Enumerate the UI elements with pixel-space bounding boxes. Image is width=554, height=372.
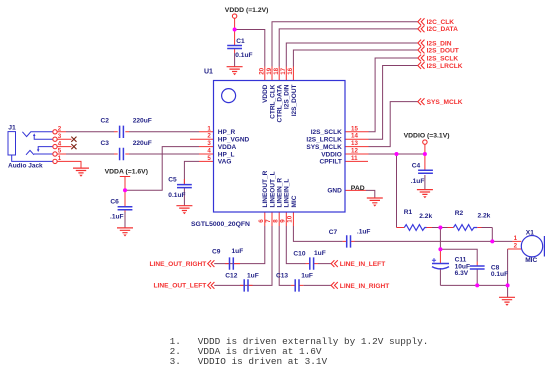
svg-text:LINE_IN_RIGHT: LINE_IN_RIGHT (340, 283, 389, 290)
svg-text:2: 2 (514, 243, 518, 250)
svg-text:15: 15 (351, 125, 358, 132)
svg-text:3: 3 (207, 140, 211, 147)
svg-text:VDDIO: VDDIO (321, 151, 342, 158)
svg-text:3: 3 (58, 133, 62, 140)
svg-text:GND: GND (327, 188, 342, 195)
svg-text:I2C_CLK: I2C_CLK (427, 19, 455, 26)
svg-text:CPFILT: CPFILT (320, 159, 342, 166)
svg-text:8: 8 (272, 219, 279, 223)
svg-text:C9: C9 (212, 248, 221, 255)
svg-text:C13: C13 (276, 273, 288, 280)
svg-text:I2S_SCLK: I2S_SCLK (311, 129, 342, 136)
svg-text:18: 18 (273, 67, 280, 74)
svg-text:MIC: MIC (291, 195, 298, 207)
svg-text:11: 11 (351, 155, 358, 162)
svg-text:X1: X1 (526, 229, 534, 236)
svg-text:5: 5 (207, 155, 211, 162)
svg-text:I2S_DIN: I2S_DIN (284, 84, 291, 109)
svg-text:1: 1 (58, 155, 62, 162)
svg-text:J1: J1 (8, 125, 16, 132)
svg-text:2: 2 (58, 126, 62, 133)
svg-text:U1: U1 (204, 69, 213, 76)
svg-text:SYS_MCLK: SYS_MCLK (427, 99, 463, 106)
svg-text:C5: C5 (168, 177, 177, 184)
svg-text:HP_L: HP_L (218, 151, 235, 158)
svg-text:I2S_DOUT: I2S_DOUT (291, 84, 298, 116)
svg-text:R2: R2 (455, 210, 464, 217)
svg-text:.1uF: .1uF (357, 228, 371, 235)
svg-text:C12: C12 (225, 273, 237, 280)
svg-text:LINEIN_R: LINEIN_R (277, 178, 284, 208)
svg-text:4: 4 (207, 148, 211, 155)
svg-text:VDDIO (=3.1V): VDDIO (=3.1V) (404, 133, 450, 140)
svg-text:VDDD (=1.2V): VDDD (=1.2V) (225, 7, 269, 14)
svg-text:2: 2 (207, 133, 211, 140)
svg-text:LINEIN_L: LINEIN_L (284, 179, 291, 208)
svg-text:1: 1 (514, 235, 518, 242)
svg-text:SYS_MCLK: SYS_MCLK (306, 144, 342, 151)
svg-text:1uF: 1uF (232, 248, 244, 255)
svg-text:1: 1 (207, 125, 211, 132)
svg-text:LINE_OUT_RIGHT: LINE_OUT_RIGHT (150, 261, 207, 268)
svg-text:I2S_LRCLK: I2S_LRCLK (306, 137, 342, 144)
svg-text:PAD: PAD (351, 185, 365, 192)
svg-text:C4: C4 (412, 163, 421, 170)
svg-text:HP_R: HP_R (218, 129, 236, 136)
svg-text:LINEOUT_R: LINEOUT_R (262, 170, 269, 207)
svg-text:CTRL_CLK: CTRL_CLK (269, 84, 276, 119)
svg-text:17: 17 (280, 67, 287, 74)
svg-text:HP_VGND: HP_VGND (218, 137, 250, 144)
svg-text:VAG: VAG (218, 159, 232, 166)
svg-text:10: 10 (287, 215, 294, 222)
svg-text:R1: R1 (404, 209, 413, 216)
svg-text:1uF: 1uF (247, 272, 259, 279)
svg-text:14: 14 (351, 133, 358, 140)
svg-text:VDDD: VDDD (262, 84, 269, 103)
svg-text:20: 20 (259, 67, 266, 74)
svg-text:13: 13 (351, 140, 358, 147)
svg-text:I2S_LRCLK: I2S_LRCLK (427, 63, 463, 70)
svg-text:C1: C1 (236, 38, 245, 45)
svg-text:SGTL5000_20QFN: SGTL5000_20QFN (191, 221, 250, 228)
svg-text:I2S_SCLK: I2S_SCLK (427, 55, 459, 62)
svg-text:C7: C7 (329, 229, 338, 236)
svg-text:Audio Jack: Audio Jack (8, 163, 43, 170)
svg-text:LINE_OUT_LEFT: LINE_OUT_LEFT (154, 283, 207, 290)
svg-text:2.2k: 2.2k (419, 213, 432, 220)
svg-text:C3: C3 (101, 140, 110, 147)
svg-text:220uF: 220uF (133, 117, 152, 124)
svg-text:3. VDDIO is driven at 3.1V: 3. VDDIO is driven at 3.1V (170, 356, 328, 367)
svg-text:6: 6 (258, 219, 265, 223)
svg-text:.1uF: .1uF (411, 178, 425, 185)
svg-text:C2: C2 (101, 117, 110, 124)
svg-text:MIC: MIC (525, 257, 537, 264)
svg-text:0.1uF: 0.1uF (235, 52, 252, 59)
svg-text:C6: C6 (110, 199, 119, 206)
svg-text:19: 19 (266, 67, 273, 74)
svg-text:I2S_DIN: I2S_DIN (427, 40, 452, 47)
svg-text:LINEOUT_L: LINEOUT_L (269, 171, 276, 207)
svg-text:I2S_DOUT: I2S_DOUT (427, 47, 459, 54)
svg-text:1uF: 1uF (301, 272, 313, 279)
svg-text:VDDA: VDDA (218, 144, 237, 151)
svg-text:12: 12 (351, 148, 358, 155)
svg-text:5: 5 (58, 148, 62, 155)
svg-text:6.3V: 6.3V (455, 270, 469, 277)
svg-text:VDDA (=1.6V): VDDA (=1.6V) (105, 169, 148, 176)
svg-text:220uF: 220uF (133, 140, 152, 147)
svg-text:LINE_IN_LEFT: LINE_IN_LEFT (340, 261, 385, 268)
svg-text:9: 9 (279, 219, 286, 223)
svg-text:0.1uF: 0.1uF (491, 271, 508, 278)
svg-text:2.2k: 2.2k (478, 213, 491, 220)
svg-text:0.1uF: 0.1uF (168, 192, 185, 199)
svg-text:CTRL_DATA: CTRL_DATA (277, 84, 284, 122)
svg-text:I2C_DATA: I2C_DATA (427, 26, 458, 33)
svg-text:1uF: 1uF (314, 250, 326, 257)
svg-text:.1uF: .1uF (110, 214, 124, 221)
svg-text:16: 16 (287, 67, 294, 74)
svg-text:7: 7 (265, 219, 272, 223)
svg-text:4: 4 (58, 140, 62, 147)
svg-text:C10: C10 (293, 251, 305, 258)
